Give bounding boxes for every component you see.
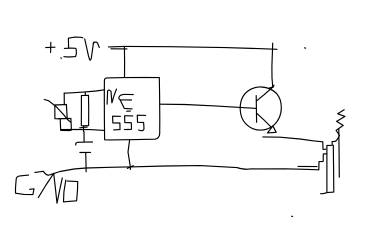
wire 555 pin 3 to transistor base: [160, 104, 256, 108]
wire emitter to speaker: [263, 137, 326, 150]
GND label N: [38, 173, 62, 203]
resistor R2 top lead: [84, 92, 86, 96]
wire 555 pin 1 to ground: [128, 140, 130, 170]
wire junction down to capacitor C1: [83, 132, 85, 142]
resistor R2 body: [81, 95, 88, 126]
wire C1 to ground: [85, 153, 87, 172]
transistor Q1 circle: [240, 87, 281, 130]
junction hash at pin1/ground: [127, 166, 133, 169]
transistor Q1 emitter stroke: [257, 113, 272, 127]
wire +5V rail: [109, 46, 278, 49]
ground wire double stroke: [298, 165, 317, 167]
wire rail overlap dash: [111, 48, 127, 50]
GND label D: [64, 180, 78, 202]
capacitor C1 bottom plate: [80, 151, 91, 153]
potentiometer R1 bottom lead to wire: [61, 129, 66, 132]
IC U1 NE555 box: [104, 78, 160, 140]
coil squiggle: [336, 110, 346, 142]
IC text 555: [113, 111, 146, 131]
resistor R2 bottom lead: [83, 126, 85, 132]
stray dot bottom right: [292, 215, 293, 217]
wire rail to 555 pin 8: [123, 47, 125, 78]
power label +5V: [46, 37, 100, 60]
potentiometer R1 wiper diagonal: [44, 100, 71, 123]
potentiometer R1 body: [55, 105, 67, 119]
transistor Q1 base bar: [255, 96, 257, 123]
IC text NE: [107, 89, 133, 109]
speaker body: [327, 141, 335, 192]
wire R network bottom to 555 pin 2: [61, 129, 105, 130]
speaker second vertical line: [338, 129, 341, 178]
ground wire: [35, 154, 327, 175]
junction tick at R2 bottom: [80, 126, 87, 129]
capacitor C1 top plate: [76, 142, 93, 145]
stray dot top right: [305, 47, 306, 49]
collector junction tick: [269, 87, 273, 88]
GND label G: [16, 175, 35, 195]
potentiometer R1 top lead: [63, 93, 65, 104]
potentiometer R1 lower body: [58, 118, 71, 130]
wire 555 pin 7 to R network top: [64, 90, 104, 93]
transistor Q1 collector stroke: [257, 85, 275, 101]
emitter arrowhead: [267, 126, 276, 133]
wire rail end down to collector: [271, 43, 274, 87]
